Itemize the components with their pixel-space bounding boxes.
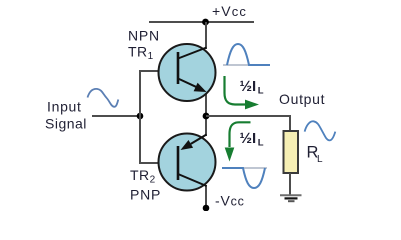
waveform half sine bottom axis [222, 167, 267, 169]
node -Vcc dot [203, 205, 210, 212]
wire PNP collector to -Vcc [205, 185, 207, 209]
waveform half sine bottom dip [222, 168, 265, 188]
wire output drop to RL [289, 115, 291, 132]
transistor TR1 NPN body [159, 44, 216, 101]
ground [280, 194, 302, 196]
transistor TR1 base bar [177, 52, 180, 84]
transistor TR1 emitter diagonal with arrow [178, 79, 197, 88]
wire RL to ground [289, 173, 291, 195]
transistor TR2 PNP body [159, 134, 216, 191]
svg-text:Input: Input [47, 99, 82, 115]
waveform output sine [305, 121, 336, 140]
svg-text:L: L [317, 154, 323, 165]
wire NPN base [139, 70, 177, 72]
svg-text:NPN: NPN [128, 28, 160, 44]
wire NPN collector to +Vcc [205, 22, 207, 49]
transistor TR2 base bar [177, 146, 180, 180]
svg-text:+Vcc: +Vcc [212, 3, 247, 19]
wire PNP emitter to output node [205, 116, 207, 136]
wire base bus vertical [139, 70, 141, 164]
wire NPN emitter to output node [205, 91, 207, 116]
wire input signal [92, 115, 140, 117]
node input junction dot [137, 113, 144, 120]
wire +Vcc rail [149, 21, 254, 23]
svg-text:PNP: PNP [130, 187, 161, 203]
node output junction dot [203, 113, 210, 120]
resistor RL [284, 131, 299, 173]
transistor TR2 emitter diagonal with arrow [191, 135, 207, 144]
wire output horizontal [206, 115, 290, 117]
waveform half sine top hump [227, 44, 270, 65]
transistor TR1 collector diagonal [178, 48, 207, 59]
svg-text:Signal: Signal [45, 116, 87, 132]
node +Vcc junction dot [202, 19, 209, 26]
arrow half IL bottom (green) [230, 122, 251, 147]
waveform input sine [88, 89, 119, 107]
svg-text:-Vcc: -Vcc [215, 193, 245, 209]
arrow half IL top (green) [225, 76, 247, 105]
wire PNP base [139, 162, 177, 164]
waveform half sine top axis [223, 64, 270, 66]
transistor TR2 collector diagonal [178, 174, 207, 186]
svg-text:Output: Output [279, 91, 325, 107]
